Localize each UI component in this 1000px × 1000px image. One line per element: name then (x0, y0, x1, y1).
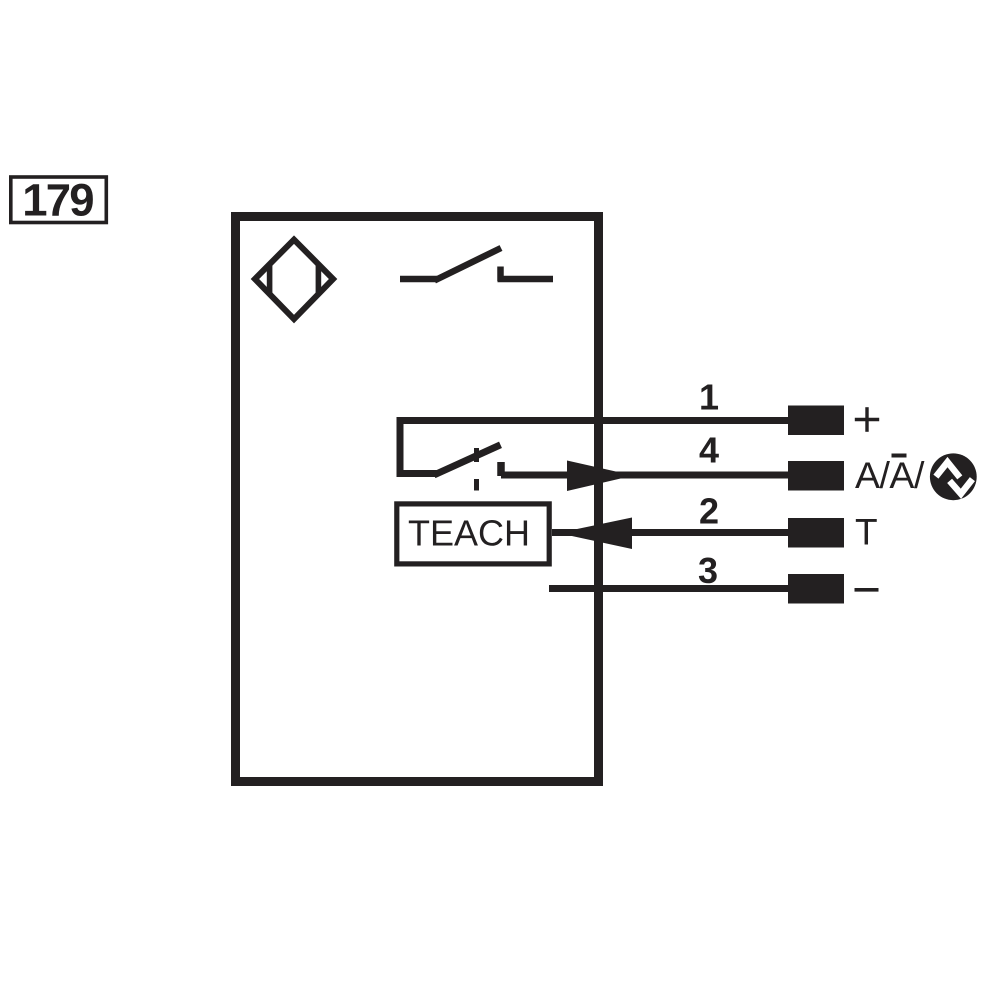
svg-text:A/A/: A/A/ (855, 454, 925, 496)
proximity symbol right vertical bar (316, 265, 322, 294)
wire pin4 output (501, 472, 788, 479)
svg-text:2: 2 (699, 491, 719, 532)
wire pin1 with branch down to teach contact (400, 421, 788, 474)
antivalent icon lower chevron (950, 479, 973, 494)
svg-text:3: 3 (698, 550, 718, 591)
output contact switch (normally open) left lead (400, 276, 437, 283)
output contact switch right post (497, 267, 504, 282)
output contact switch lever (435, 248, 502, 281)
teach contact right post (497, 462, 505, 476)
antivalent switching icon circle (930, 453, 977, 500)
connector pin 2 (788, 518, 844, 548)
connector pin 1 (788, 406, 844, 436)
output contact switch right lead (498, 276, 554, 283)
svg-text:4: 4 (699, 430, 719, 471)
sensor body rectangle (236, 217, 599, 782)
svg-text:1: 1 (699, 377, 719, 418)
teach contact actuator dash to TEACH box (474, 479, 479, 491)
overbar of second A (892, 454, 907, 458)
svg-text:179: 179 (22, 175, 93, 226)
figure number box 179 (11, 177, 107, 223)
svg-text:TEACH: TEACH (408, 513, 530, 554)
connector pin 4 (788, 461, 844, 491)
teach contact actuator dash crossing lever (474, 448, 479, 462)
arrow on wire 2 pointing left to TEACH (558, 518, 632, 550)
connector pin 3 (788, 574, 844, 604)
svg-text:T: T (855, 512, 878, 553)
teach contact lever (434, 445, 501, 475)
antivalent icon upper chevron (936, 462, 960, 477)
proximity symbol left vertical bar (267, 265, 273, 294)
wire pin2 teach input (552, 529, 788, 536)
wire pin3 minus (549, 585, 788, 592)
plus supply label (855, 407, 879, 432)
proximity sensor symbol (diamond) (255, 240, 333, 320)
TEACH function box (397, 504, 549, 564)
arrow on wire 4 pointing right (567, 461, 634, 492)
minus supply label (855, 588, 879, 592)
